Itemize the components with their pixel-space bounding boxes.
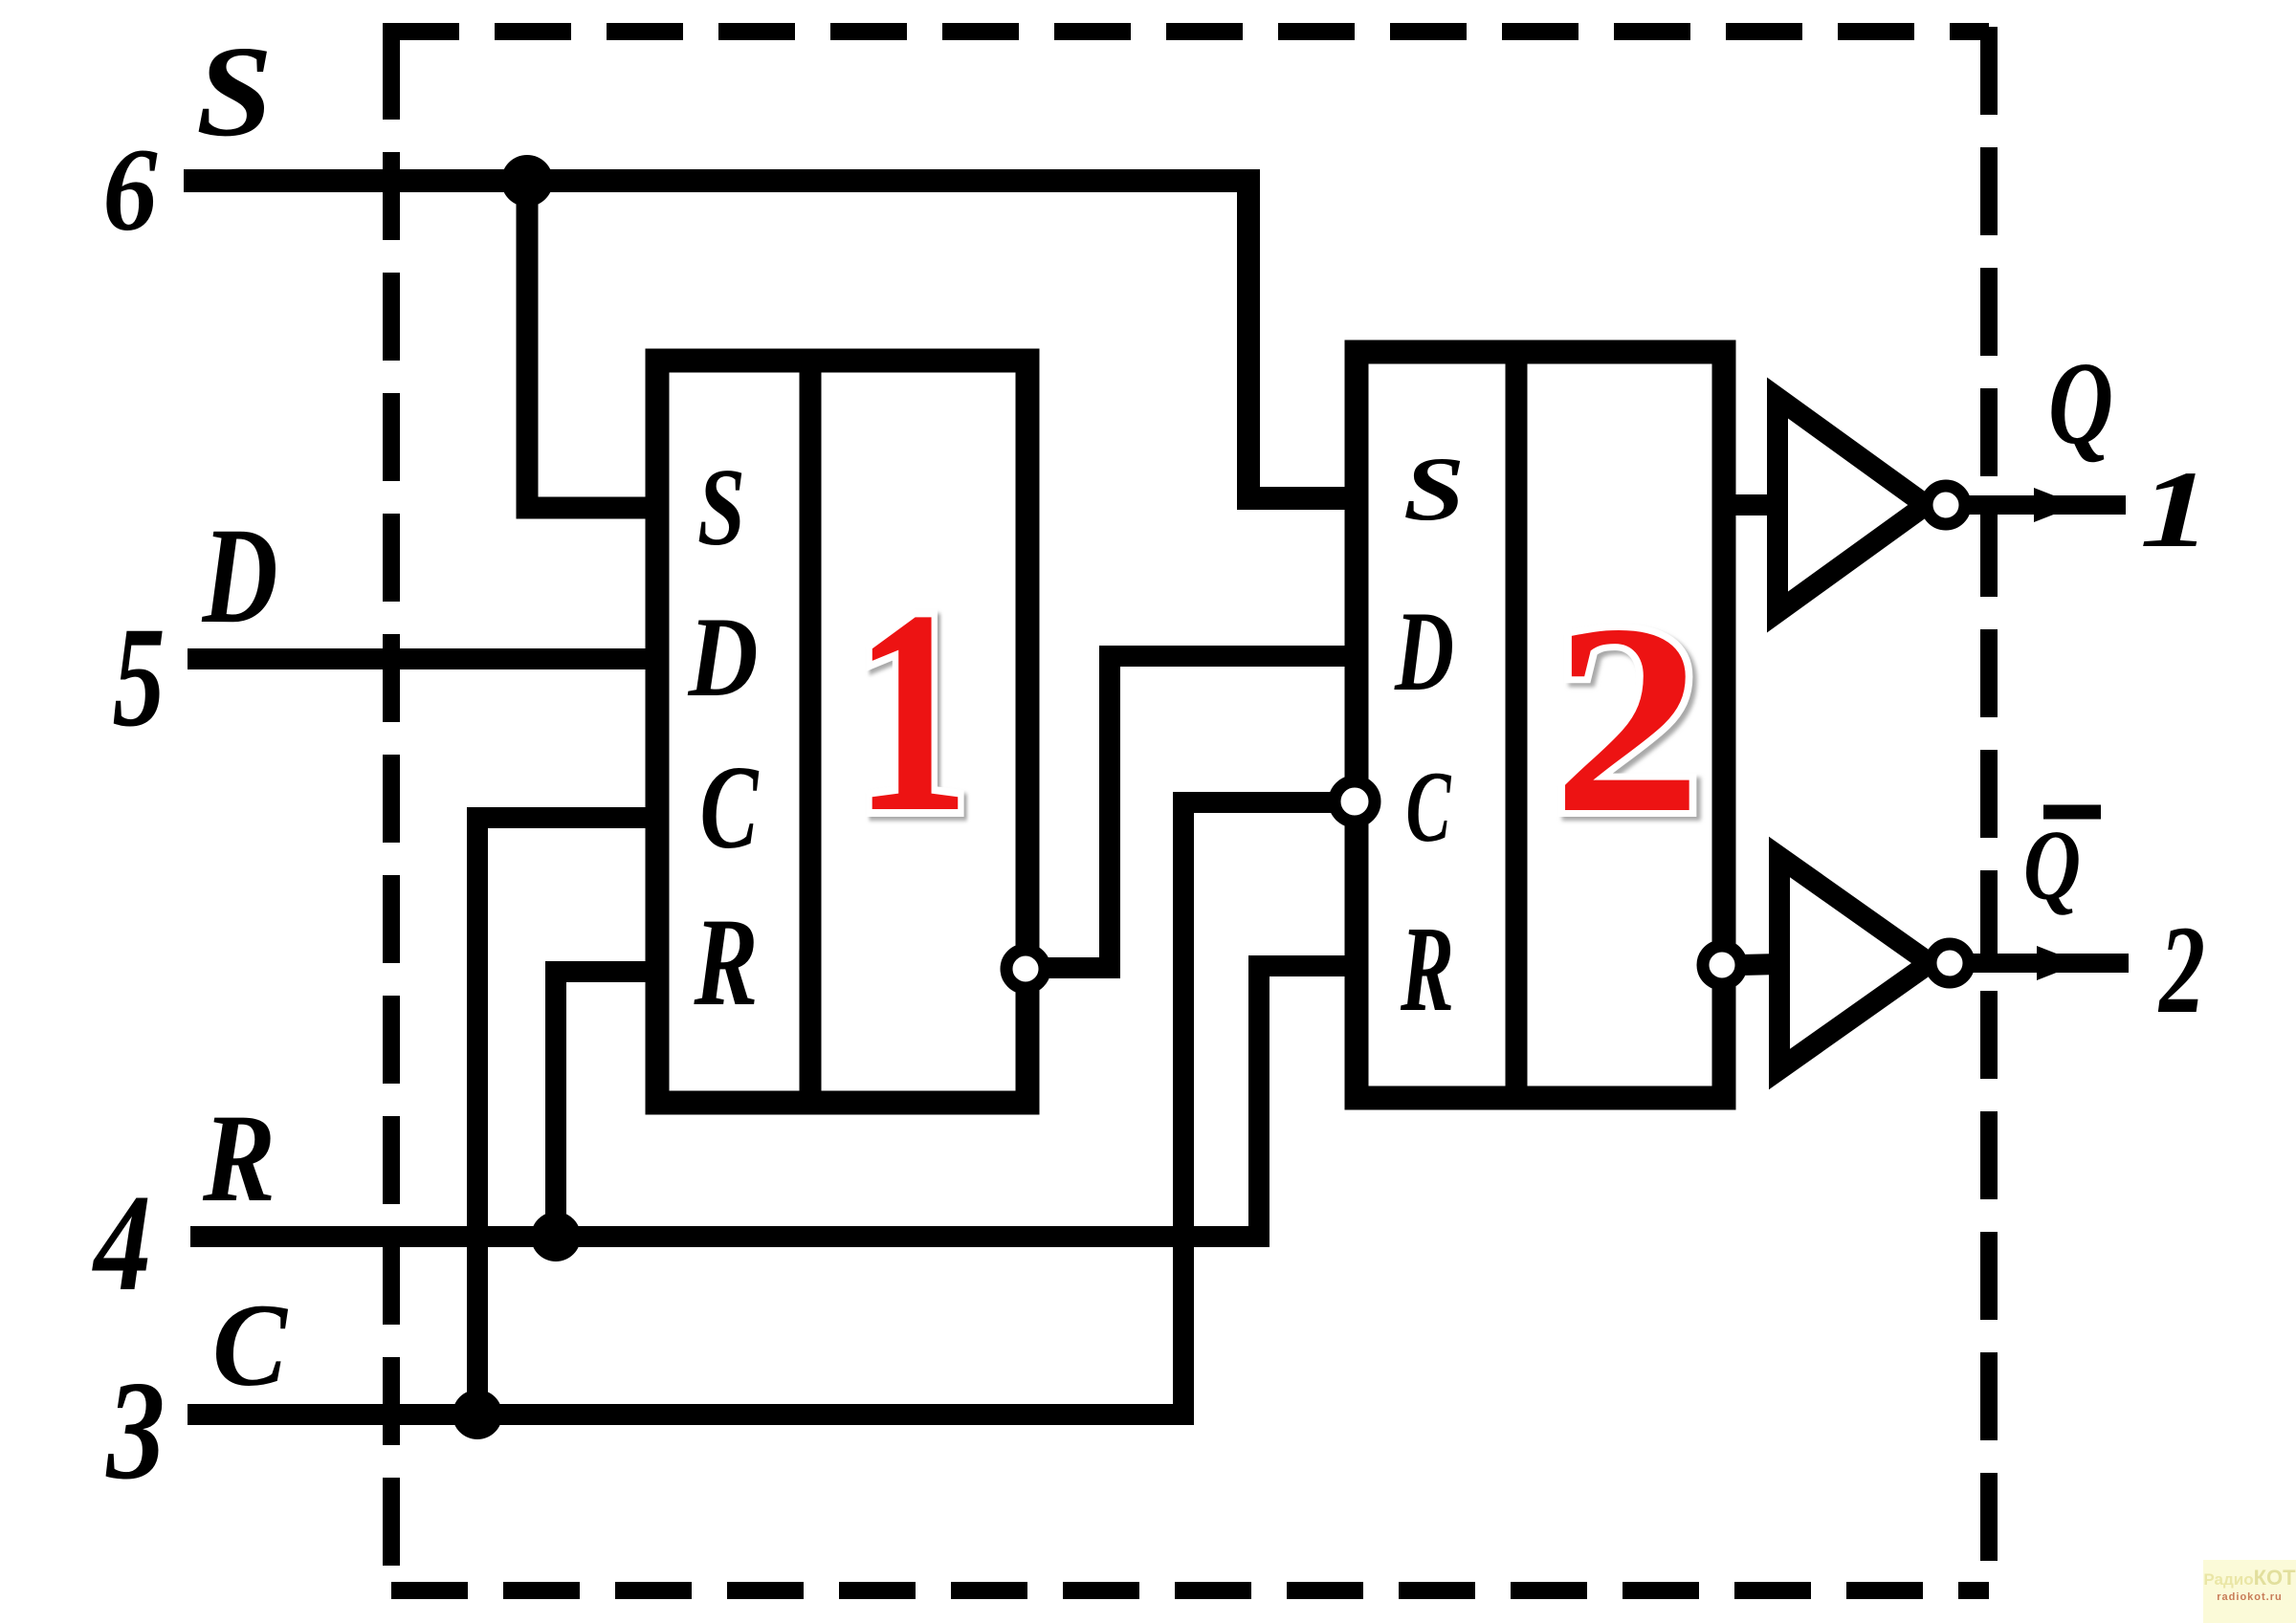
upper buffer inversion bubble — [1927, 486, 1965, 524]
svg-text:C: C — [1406, 751, 1452, 863]
svg-text:R: R — [202, 1087, 276, 1228]
wire R branch up to block 1 R input — [556, 972, 657, 1237]
svg-text:D: D — [201, 500, 278, 652]
block 2 divider — [1506, 352, 1528, 1098]
wire block 1 inverted output to block 2 D input — [1042, 656, 1357, 968]
junction dot on pin 4 line — [531, 1212, 581, 1261]
svg-text:D: D — [1394, 587, 1454, 714]
flip-flop block 2 outline — [1357, 352, 1724, 1098]
flip-flop block 1 outline — [657, 361, 1027, 1103]
wire pin 6 (S input) horizontal, then down to block 2 S input — [184, 181, 1357, 498]
svg-text:C: C — [212, 1280, 288, 1411]
wire S branch down to block 1 S input — [527, 181, 657, 508]
svg-text:D: D — [688, 593, 759, 720]
lower buffer inversion bubble — [1931, 944, 1969, 982]
wire pin 3 (C input) horizontal, riser to block 2 C bubble — [188, 802, 1338, 1415]
svg-text:S: S — [1403, 438, 1465, 539]
arrowhead on pin 2 output — [2037, 946, 2081, 980]
IC boundary dashed border — [383, 27, 1989, 1590]
svg-text:1: 1 — [2140, 448, 2212, 570]
wire C branch up to block 1 C input — [477, 818, 657, 1415]
svg-text:R: R — [694, 891, 759, 1032]
svg-text:Q: Q — [2023, 809, 2081, 921]
svg-text:3: 3 — [105, 1352, 166, 1509]
block 1 output bubble (on right edge) — [1006, 950, 1045, 988]
wire block 2 inverted output to lower buffer — [1741, 964, 1779, 965]
block 2 inverted output bubble (on right edge) — [1703, 946, 1741, 984]
svg-text:S: S — [196, 20, 273, 164]
block 1 divider — [800, 361, 822, 1103]
svg-text:C: C — [700, 742, 760, 874]
svg-text:R: R — [1400, 901, 1454, 1037]
wire output pin 2 with arrowhead — [1969, 954, 2129, 973]
wire output pin 1 with arrowhead — [1965, 495, 2126, 515]
watermark radiokot — [2203, 1560, 2296, 1623]
svg-text:5: 5 — [113, 598, 166, 757]
wire pin 5 (D input) to block 1 — [188, 648, 657, 669]
upper output buffer triangle — [1777, 398, 1926, 612]
svg-text:1: 1 — [853, 550, 970, 872]
svg-text:S: S — [697, 447, 745, 568]
svg-text:2: 2 — [1553, 568, 1702, 869]
arrowhead on pin 1 output — [2034, 488, 2078, 522]
svg-text:6: 6 — [103, 124, 158, 255]
svg-text:2: 2 — [2158, 899, 2205, 1040]
wire pin 4 (R input) horizontal, riser to block 2 R input — [190, 966, 1357, 1237]
overbar of Q-bar label — [2043, 805, 2101, 820]
block 2 C input bubble (on left edge) — [1335, 781, 1375, 822]
svg-text:4: 4 — [92, 1167, 151, 1320]
junction dot on pin 6 line — [501, 155, 553, 207]
wire block 2 Q output to upper buffer — [1724, 494, 1777, 515]
junction dot on pin 3 line — [453, 1390, 502, 1439]
lower output buffer triangle — [1779, 857, 1930, 1069]
svg-text:Q: Q — [2048, 338, 2113, 469]
